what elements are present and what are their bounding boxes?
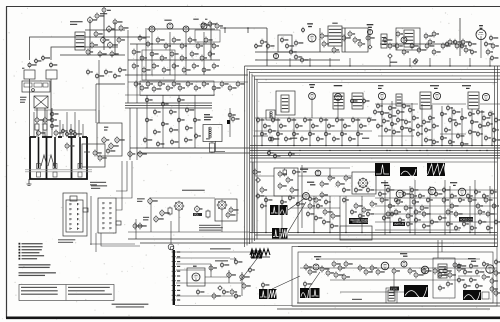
resistor R106 [206, 210, 210, 219]
tube V2 sound IF [167, 23, 173, 29]
waveform W14 horiz sweep [463, 290, 481, 300]
component IF 42 [486, 121, 489, 128]
legend item 6 [19, 258, 21, 260]
capacitor C56 [158, 81, 162, 88]
wire sound IF feed [266, 28, 268, 66]
wire drop to heater line 5 [389, 58, 391, 66]
resistor R114 [320, 180, 324, 187]
component C3-10 [366, 187, 369, 194]
wire B2 drop 1 [146, 95, 148, 148]
component C3-15 [296, 201, 299, 208]
wire [60, 54, 125, 56]
resistor R56 [491, 43, 495, 50]
tuner coil L10 [41, 155, 47, 166]
component D4-6 [463, 283, 466, 290]
component B2-3 [145, 117, 148, 124]
capacitor C23 [260, 39, 264, 46]
transformer L2 4.5MC sound [328, 26, 342, 46]
component B2-10 [185, 107, 188, 114]
socket pin [170, 246, 174, 250]
component C4-7 [426, 197, 429, 204]
wire drop to heater line 7 [429, 58, 431, 66]
component IF 41 [478, 123, 481, 130]
wire B2 drop 4 [194, 95, 196, 148]
capacitor C112b [292, 169, 295, 176]
tuner shield partition 1 [38, 137, 40, 168]
wire [128, 231, 250, 233]
wire [378, 135, 414, 137]
tuner shield partition 5 [79, 137, 81, 168]
capacitor C133 [448, 271, 452, 278]
component IF 36 [476, 109, 479, 116]
junction supply 5 [389, 150, 390, 151]
wire lower bus [125, 74, 248, 76]
resistor R7 [117, 36, 121, 43]
resistor R112 [308, 202, 312, 209]
capacitor C117 [344, 174, 348, 181]
component IF 29 [440, 111, 443, 118]
bead strip tap 4 [172, 265, 176, 267]
wire [136, 44, 138, 103]
CRT bead strip [173, 250, 175, 305]
resistor R12 [150, 51, 154, 58]
tube pin P1 [37, 129, 41, 136]
connector J1 pin row 2 [70, 208, 79, 210]
wire C3 drop 4 [313, 196, 315, 233]
speaker arrow [230, 258, 236, 261]
component C3-9 [354, 187, 357, 194]
capacitor C80 [300, 136, 303, 143]
connector J2 pin row 4 [103, 217, 112, 219]
tube id bubble [302, 27, 305, 33]
tone switch box [215, 199, 237, 221]
capacitor C58 [172, 81, 176, 88]
wire [459, 18, 461, 56]
resistor R40 [353, 36, 357, 43]
resistor R53 [461, 39, 465, 46]
component IF 40 [470, 119, 473, 126]
wire vert tap 1 [384, 180, 386, 235]
resistor R151 [212, 292, 216, 299]
resistor R74 [362, 98, 365, 104]
wire B+ vertical bus 5 [254, 76, 256, 241]
component B2-9 [177, 117, 180, 124]
wire B+ distribution 2 [255, 234, 497, 236]
capacitor C24 [320, 32, 324, 39]
resistor R84 [327, 123, 330, 130]
resistor R137 [422, 211, 426, 218]
wire [319, 28, 321, 52]
wire [311, 100, 313, 118]
component IF 44 [468, 129, 471, 136]
component IF 22 [424, 127, 427, 134]
component B2-17 [184, 137, 187, 144]
wire [176, 263, 211, 265]
wire [255, 195, 375, 197]
component IF 4 [388, 105, 391, 112]
component IF 43 [492, 127, 495, 134]
component C4-5 [410, 187, 413, 194]
wire [101, 233, 140, 246]
resistor R122 [396, 199, 400, 206]
wire IF drop 2 [391, 101, 393, 146]
svg-text:CONNECTION: CONNECTION [353, 222, 369, 224]
wire sound IF drop 2 [277, 118, 279, 146]
transformer L17 video IF [396, 94, 402, 106]
resistor R108b [283, 169, 287, 177]
connector J1 pin row 5 [70, 223, 79, 225]
wire B+ distribution 5 [298, 246, 497, 248]
waveform leader 4 [272, 276, 300, 289]
resistor R81 [303, 117, 306, 124]
capacitor C2 [49, 62, 52, 68]
component D4-7 [469, 277, 472, 284]
legend item 2 [19, 246, 21, 248]
tube V24 horiz output [486, 265, 494, 273]
sound IF transformer box [276, 91, 295, 115]
potentiometer R101 contrast [154, 215, 158, 223]
wire to tuner from T1 [29, 79, 31, 137]
resistor R26 [192, 63, 196, 70]
capacitor C78 [284, 136, 287, 143]
tube V23 horiz AFC [421, 266, 429, 274]
resistor R161 [433, 267, 437, 274]
capacitor C119 [362, 206, 366, 213]
capacitor D2e [234, 293, 237, 300]
component C4-18 [398, 217, 401, 224]
wire IF stage drop 1 [151, 32, 153, 75]
resistor R127 [442, 197, 446, 204]
connector J2 pin row 3 [103, 212, 112, 214]
wire supply line 4 [137, 152, 500, 154]
wire vert tap 3 [444, 180, 446, 235]
resistor R67 [106, 148, 110, 155]
wire right bus 1 [494, 66, 496, 247]
component B2-1 [145, 97, 148, 104]
wire stub [247, 28, 249, 33]
component C3-19 [256, 193, 259, 200]
component C4-29 [486, 225, 489, 232]
waveform W8 ripple [251, 251, 263, 259]
wire C3 drop 6 [345, 196, 347, 233]
wire sound takeoff line [220, 27, 267, 29]
capacitor C42 [35, 116, 39, 123]
resistor R126 [410, 193, 414, 200]
resistor R71 [231, 116, 235, 123]
antenna terminal T2 [46, 70, 57, 79]
component C4-25 [454, 225, 457, 232]
waveform W5 [375, 163, 390, 176]
tube V20 6AL5 sync inv [313, 264, 319, 270]
component IF 25 [424, 137, 427, 144]
wire C4 drop 1 [389, 186, 391, 233]
component C4-9 [442, 187, 445, 194]
component C4-4 [402, 191, 405, 198]
component IF 10 [404, 119, 407, 126]
bead strip tap 7 [172, 280, 176, 282]
capacitor C9 [98, 50, 102, 57]
component C4-30 [494, 219, 497, 226]
capacitor C18 [204, 37, 208, 44]
wire [480, 103, 500, 105]
capacitor C130 [408, 267, 412, 274]
wire antenna feed line 1 [30, 37, 151, 60]
component IF 17 [400, 125, 403, 132]
capacitor C17 [196, 43, 200, 50]
note left line 1 [21, 287, 57, 288]
tuner coil L11 [48, 155, 54, 166]
waveform leader 1 [288, 198, 305, 210]
wire [36, 108, 38, 118]
wire section top [250, 161, 497, 163]
label vert lin [390, 287, 399, 291]
potentiometer R100 brightness [148, 197, 152, 205]
capacitor C125 [326, 269, 330, 276]
wire supply line 2 [130, 147, 500, 149]
resistor R47 [417, 47, 421, 54]
resistor R141 [386, 211, 390, 218]
resistor R115 [323, 208, 327, 215]
tube V19 5U4G rectifier [192, 273, 200, 281]
wire to tuner from T2 [50, 79, 52, 120]
capacitor C40 [43, 83, 48, 87]
ground tuner [27, 179, 32, 186]
component B2-18 [194, 133, 197, 140]
component D4-5 [457, 277, 460, 284]
resistor R38 [322, 40, 326, 47]
label 21.25MC trap [70, 21, 83, 22]
wire IF drop 1 [381, 100, 383, 146]
sync box [274, 168, 298, 196]
wire [300, 267, 497, 269]
junction supply 3 [329, 150, 330, 151]
resistor R31b [266, 43, 270, 50]
capacitor C10 [138, 35, 142, 42]
discriminator box [278, 35, 292, 52]
wire tuner lead 2 [42, 120, 44, 137]
component C4-11 [458, 197, 461, 204]
wire [432, 103, 466, 105]
resistor R107 [226, 211, 230, 218]
wire tuner lead 3 [46, 110, 48, 137]
resistor R89 [367, 117, 370, 124]
wire [44, 108, 46, 118]
tube V1 sound IF [149, 26, 155, 32]
capacitor A1b [95, 73, 98, 80]
capacitor C76 [268, 136, 271, 143]
resistor R33 [289, 49, 293, 56]
component IF 6 [396, 109, 399, 116]
wire [176, 295, 240, 297]
capacitor C19 [212, 43, 216, 50]
resistor R25 [182, 67, 186, 74]
component C4-28 [478, 219, 481, 226]
wire C3 drop 7 [361, 196, 363, 233]
wire [255, 130, 372, 132]
resistor R32 [294, 40, 298, 47]
resistor R70 [138, 150, 142, 158]
transformer L14 sound IF [281, 95, 289, 112]
height control box [340, 226, 372, 240]
capacitor C39 [453, 39, 456, 46]
component C4-8 [434, 191, 437, 198]
resistor R59 [484, 41, 487, 48]
capacitor C135 [490, 277, 494, 284]
component C3-7 [358, 213, 361, 220]
component C4-26 [462, 221, 465, 228]
resistor R79 [287, 117, 290, 124]
wire AGC line 2 [125, 105, 212, 107]
potentiometer R102 vert hold [160, 209, 164, 217]
component IF 3 [380, 110, 383, 117]
wire sound IF drop 7 [357, 118, 359, 146]
waveform W3 vert pulse [272, 228, 280, 239]
tube V9 video amp [401, 37, 407, 43]
width coil box [203, 125, 222, 142]
resistor R65 [50, 123, 54, 130]
component C3-4 [330, 223, 333, 230]
legend item 3 [19, 249, 21, 251]
capacitor C74 [350, 98, 353, 104]
connector J1 pin row 4 [70, 218, 79, 220]
wire [145, 30, 147, 80]
notes box [19, 285, 114, 301]
junction supply 1 [269, 150, 270, 151]
wire IF drop 10 [471, 109, 473, 146]
note left line 2 [21, 290, 58, 291]
component IF 20 [422, 119, 425, 126]
resistor R86 [343, 123, 346, 130]
capacitor C83 [324, 131, 327, 138]
resistor R66 [109, 142, 113, 150]
component C3-1 [306, 211, 309, 218]
wire [98, 110, 100, 123]
resistor R140 [394, 209, 398, 216]
component B2-4 [161, 101, 164, 108]
wire [375, 197, 497, 199]
wire IF drop 12 [491, 111, 493, 146]
AGC keyer box [140, 81, 214, 96]
resistor R162 [443, 267, 447, 274]
waveform W6 [400, 167, 417, 176]
resistor D2b [234, 259, 237, 266]
component IF 50 [492, 137, 495, 144]
wire [127, 30, 129, 103]
bead strip tap 5 [172, 270, 176, 272]
wire [44, 132, 46, 137]
capacitor C59 [178, 85, 182, 92]
resistor R124 [412, 199, 416, 206]
tuner shield partition 2 [46, 137, 48, 179]
resistor R77 [271, 117, 274, 124]
connector J1 notch [70, 196, 77, 201]
component IF 16 [392, 129, 395, 136]
antenna terminal T1 [24, 70, 35, 79]
capacitor C52 [134, 81, 138, 88]
component C4-3 [394, 197, 397, 204]
wire [176, 282, 244, 284]
component B2-11 [185, 125, 188, 132]
resistor R153 [320, 265, 324, 272]
wire IF chain plate line [148, 28, 215, 30]
capacitor C45 [102, 136, 106, 144]
resistor R72 [210, 142, 215, 154]
tube V22 [401, 261, 407, 267]
capacitor C12 [156, 37, 160, 44]
coil L12 width [209, 127, 211, 138]
resistor R2 [95, 12, 99, 19]
resistor R163 [453, 261, 457, 268]
capacitor C122 filter [240, 273, 244, 281]
resistor R139 [406, 213, 410, 220]
component IF 28 [444, 127, 447, 134]
note right line 3 [68, 294, 112, 295]
wire heater/B+ line 4 [252, 75, 500, 77]
capacitor C7 [101, 36, 106, 44]
wire [175, 305, 292, 307]
wire B+ vertical bus 2 [246, 69, 248, 246]
capacitor C28 [396, 31, 400, 38]
wire [241, 272, 243, 296]
resistor R121 [388, 203, 392, 210]
component C3-12 [324, 199, 327, 206]
capacitor C43 [43, 116, 47, 123]
resistor R108 [286, 176, 290, 183]
resistor R165 [494, 269, 498, 276]
resistor R52 [455, 43, 459, 50]
capacitor C49 [74, 131, 77, 137]
wire drop to heater line 8 [449, 58, 451, 66]
resistor R130 [476, 203, 480, 210]
resistor R15 [180, 55, 184, 62]
capacitor C6 [119, 24, 123, 31]
resistor R85 [335, 117, 338, 124]
capacitor D2c [248, 267, 251, 274]
capacitor C30 [428, 39, 432, 46]
wire C4 drop 6 [489, 186, 491, 233]
wire IF drop 3 [401, 102, 403, 146]
component B2-14 [143, 137, 146, 144]
resistor R50 [441, 43, 445, 50]
component IF 23 [432, 123, 435, 130]
component IF 1 [376, 103, 379, 110]
waveform W7 [427, 163, 446, 176]
switch SW1 channel selector [174, 201, 185, 212]
wire [210, 22, 212, 60]
tuner trimmer capacitor 3 [78, 164, 82, 169]
wire [393, 273, 395, 296]
wire stub [224, 28, 226, 33]
wire grid return [130, 43, 215, 45]
wire supply line 5 [250, 155, 500, 157]
resistor R76 [263, 123, 266, 130]
component IF 7 [402, 103, 405, 110]
wire tap [136, 108, 138, 160]
component B2-6 [161, 121, 164, 128]
resistor R117 [370, 200, 374, 207]
resistor R55 [486, 49, 490, 56]
resistor R58 [445, 41, 448, 48]
tube V6 6AU6 audio IF [308, 34, 316, 42]
wire drop to heater line 2 [309, 58, 311, 66]
component IF 11 [412, 115, 415, 122]
wire IF stage drop 2 [169, 32, 171, 75]
test point TP5 [218, 286, 222, 290]
wire [339, 196, 341, 232]
vertical section outer box [292, 247, 497, 307]
resistor R132 [492, 203, 496, 210]
wire [150, 203, 152, 232]
